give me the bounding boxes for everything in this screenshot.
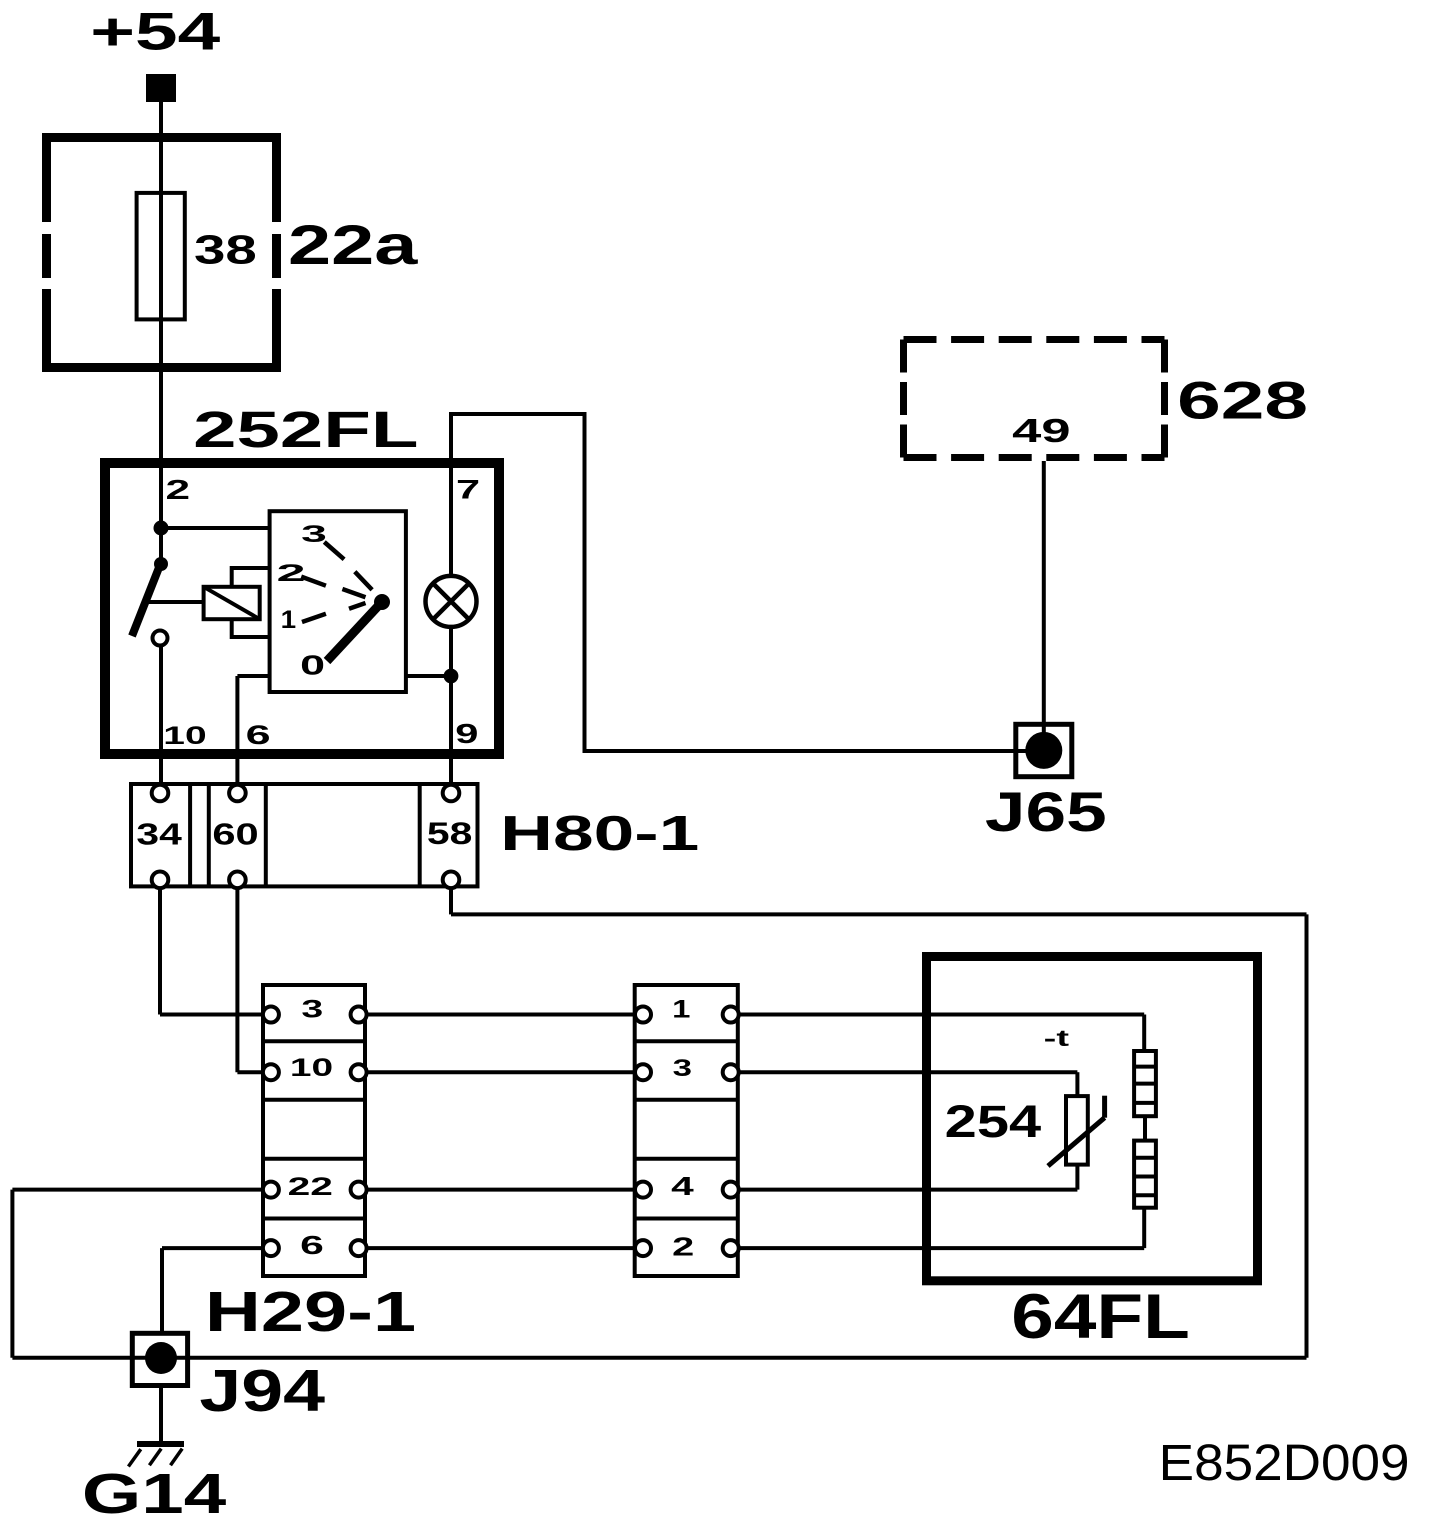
svg-text:J65: J65: [985, 781, 1107, 843]
svg-text:58: 58: [427, 815, 472, 851]
svg-text:1: 1: [281, 606, 297, 634]
svg-text:H29-1: H29-1: [205, 1280, 416, 1343]
svg-text:60: 60: [212, 818, 258, 852]
svg-text:252FL: 252FL: [193, 401, 418, 458]
svg-text:6: 6: [300, 1230, 324, 1260]
svg-text:7: 7: [456, 474, 480, 504]
svg-text:22: 22: [288, 1173, 333, 1201]
svg-text:3: 3: [673, 1055, 692, 1082]
svg-text:10: 10: [290, 1054, 333, 1082]
svg-text:1: 1: [672, 996, 690, 1024]
svg-text:2: 2: [672, 1231, 694, 1261]
svg-text:34: 34: [136, 818, 181, 852]
svg-text:2: 2: [166, 474, 191, 505]
svg-text:6: 6: [246, 720, 271, 750]
svg-text:10: 10: [163, 722, 206, 750]
svg-text:-t: -t: [1044, 1025, 1070, 1051]
svg-text:628: 628: [1177, 371, 1308, 430]
svg-text:+54: +54: [90, 3, 221, 62]
svg-text:0: 0: [300, 650, 325, 681]
svg-text:254: 254: [945, 1096, 1042, 1147]
svg-text:H80-1: H80-1: [500, 806, 699, 861]
svg-text:J94: J94: [199, 1359, 325, 1424]
svg-text:4: 4: [671, 1171, 694, 1201]
svg-text:G14: G14: [82, 1462, 227, 1525]
svg-text:3: 3: [301, 521, 327, 548]
svg-text:3: 3: [301, 996, 323, 1024]
svg-text:38: 38: [194, 227, 257, 273]
svg-text:49: 49: [1012, 412, 1070, 449]
svg-text:2: 2: [277, 561, 306, 587]
svg-text:9: 9: [455, 718, 478, 749]
svg-text:22a: 22a: [288, 214, 419, 276]
svg-text:64FL: 64FL: [1011, 1282, 1190, 1352]
svg-text:E852D009: E852D009: [1159, 1433, 1410, 1491]
